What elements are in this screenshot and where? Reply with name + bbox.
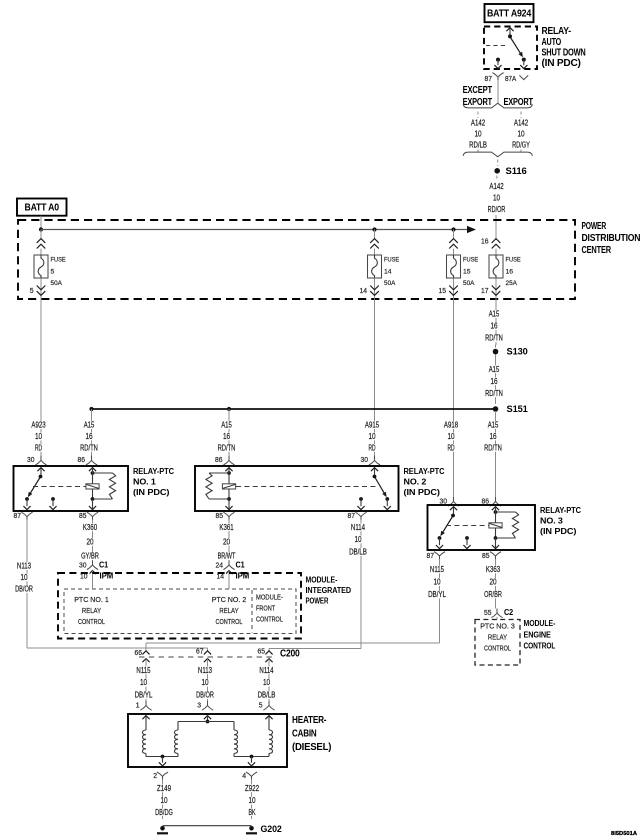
svg-text:4: 4 — [242, 771, 246, 780]
svg-text:RD: RD — [35, 442, 42, 452]
svg-text:85: 85 — [216, 511, 224, 520]
svg-text:RELAY-: RELAY- — [542, 26, 571, 37]
relay RELAY-PTC NO. 1 (IN PDC) box — [14, 466, 129, 511]
wire BATT A0 feed — [40, 216, 42, 230]
svg-text:RD/TN: RD/TN — [80, 442, 98, 452]
svg-text:FRONT: FRONT — [256, 603, 275, 612]
svg-text:30: 30 — [27, 455, 35, 464]
svg-text:87: 87 — [427, 551, 435, 560]
heater output to pin 2 — [145, 754, 147, 757]
svg-text:10: 10 — [263, 677, 270, 687]
svg-text:10: 10 — [248, 795, 255, 805]
relay 2 switch common from pin 30 — [371, 468, 378, 472]
svg-text:DISTRIBUTION: DISTRIBUTION — [582, 233, 640, 244]
svg-text:(DIESEL): (DIESEL) — [292, 742, 331, 753]
svg-text:17: 17 — [481, 286, 489, 295]
heater pin 3 feed split — [204, 716, 211, 720]
svg-text:10: 10 — [20, 572, 27, 582]
svg-text:RELAY: RELAY — [219, 606, 238, 615]
svg-text:RELAY-PTC: RELAY-PTC — [540, 505, 581, 515]
svg-text:SHUT DOWN: SHUT DOWN — [542, 47, 586, 58]
relay RELAY-PTC NO. 3 (IN PDC) box — [428, 505, 536, 550]
connector/box BATT A924 — [485, 4, 534, 22]
relay 3 contact 87 — [438, 536, 442, 540]
svg-text:RD/TN: RD/TN — [485, 333, 503, 343]
svg-text:(IN PDC): (IN PDC) — [133, 487, 170, 497]
svg-text:CONTROL: CONTROL — [216, 617, 243, 626]
wire N114 10 DB/LB (relay 2 pin 87 to C200 pin 65) — [360, 520, 362, 649]
svg-text:10: 10 — [368, 431, 375, 441]
relay 3 switch common from pin 30 — [450, 507, 457, 511]
svg-text:30: 30 — [79, 560, 87, 569]
wire A15 16 RD/TN (S151 to relay 2 pin 86) — [228, 409, 230, 456]
svg-text:BK: BK — [248, 807, 255, 817]
svg-text:2: 2 — [153, 771, 157, 780]
svg-text:ENGINE: ENGINE — [524, 629, 552, 639]
svg-text:NO. 2: NO. 2 — [404, 476, 427, 486]
svg-text:5: 5 — [30, 286, 34, 295]
heater element coil B (pin 3 left) — [174, 730, 178, 754]
svg-text:A915: A915 — [365, 420, 379, 430]
pin 14 into IPM — [225, 571, 232, 575]
svg-text:16: 16 — [490, 376, 497, 386]
wire A142 10 RD/GY (export) — [520, 112, 522, 119]
svg-text:DB/YL: DB/YL — [135, 690, 153, 700]
svg-text:EXCEPT: EXCEPT — [463, 85, 493, 96]
ASD relay pivot junction — [508, 34, 512, 38]
junction at relay 2 coil feed — [227, 407, 231, 411]
svg-text:N115: N115 — [136, 665, 150, 675]
svg-text:50A: 50A — [384, 280, 396, 287]
svg-text:RD: RD — [368, 442, 375, 452]
svg-text:66: 66 — [135, 648, 143, 657]
svg-text:G202: G202 — [261, 824, 282, 834]
svg-text:50A: 50A — [463, 280, 475, 287]
svg-text:S151: S151 — [507, 404, 528, 414]
svg-text:POWER: POWER — [306, 596, 329, 606]
wire K363 20 OR/BR (relay 3 pin 85 to C2) — [495, 559, 497, 609]
svg-text:16: 16 — [489, 431, 496, 441]
svg-text:10: 10 — [354, 534, 361, 544]
svg-text:N114: N114 — [351, 522, 365, 532]
svg-text:K363: K363 — [486, 564, 500, 574]
relay 3 coil with parallel resistor, pin 86 to 85 — [492, 507, 499, 511]
relay 1 armature arrow to 87 — [29, 478, 40, 496]
splice S130 — [493, 349, 499, 355]
wire A15 16 RD/TN (fuse 16 to S130) — [495, 299, 497, 345]
svg-text:86: 86 — [215, 455, 223, 464]
option split brace — [463, 103, 532, 108]
svg-text:NO. 1: NO. 1 — [133, 476, 156, 486]
svg-text:20: 20 — [223, 536, 230, 546]
svg-text:MODULE-: MODULE- — [256, 592, 283, 601]
svg-text:A142: A142 — [489, 181, 503, 191]
ASD relay contact 87 — [496, 58, 500, 62]
wire A915 10 RD (fuse 14 to relay 2 pin 30) — [374, 299, 376, 456]
svg-text:RELAY-PTC: RELAY-PTC — [404, 466, 445, 476]
in-line connector C200 — [139, 656, 276, 658]
svg-text:10: 10 — [517, 129, 524, 139]
svg-text:25A: 25A — [506, 280, 518, 287]
POWER DISTRIBUTION CENTER dashed box — [18, 220, 575, 299]
svg-text:NO. 3: NO. 3 — [540, 515, 563, 525]
svg-text:BATT A0: BATT A0 — [25, 203, 60, 214]
svg-text:(IN PDC): (IN PDC) — [404, 487, 441, 497]
svg-text:3: 3 — [197, 701, 201, 710]
fuse F5 5 50A — [40, 230, 42, 239]
fuse F14 14 50A — [374, 230, 376, 239]
svg-text:N114: N114 — [259, 665, 273, 675]
svg-text:PTC NO. 2: PTC NO. 2 — [212, 595, 247, 604]
junction at relay 1 coil feed — [89, 407, 93, 411]
bus wire from S151 feeding relay coils — [92, 408, 496, 410]
relay 1 coil with parallel resistor, pin 86 to 85 — [89, 468, 96, 472]
svg-text:A15: A15 — [488, 420, 499, 430]
svg-text:10: 10 — [140, 677, 147, 687]
svg-text:S116: S116 — [506, 166, 527, 176]
svg-text:DB/YL: DB/YL — [428, 589, 446, 599]
svg-text:FUSE: FUSE — [506, 257, 522, 264]
svg-text:A923: A923 — [31, 420, 45, 430]
relay 3 armature arrow to 87 — [441, 517, 452, 535]
svg-text:N113: N113 — [17, 561, 31, 571]
svg-text:8I5D501A: 8I5D501A — [611, 831, 637, 837]
module MODULE-INTEGRATED POWER dashed box — [58, 573, 301, 639]
fuse F15 15 50A — [453, 230, 455, 239]
svg-text:10: 10 — [433, 577, 440, 587]
heater output to pin 4 — [233, 754, 235, 757]
svg-text:A15: A15 — [84, 420, 95, 430]
svg-text:N113: N113 — [198, 665, 212, 675]
wire N115 10 DB/YL (C200 to heater pin 1) — [135, 666, 152, 674]
svg-text:RD: RD — [447, 442, 454, 452]
svg-text:AUTO: AUTO — [542, 37, 562, 48]
svg-text:10: 10 — [447, 431, 454, 441]
svg-text:24: 24 — [216, 560, 224, 569]
svg-text:CONTROL: CONTROL — [524, 641, 556, 651]
wire A15 16 RD/TN (S151 to relay 3 pin 86) — [495, 411, 497, 497]
svg-text:FUSE: FUSE — [51, 257, 67, 264]
svg-text:Z149: Z149 — [157, 783, 171, 793]
wire A15 16 RD/TN (S151 to relay 1 pin 86) — [91, 409, 93, 456]
svg-text:EXPORT: EXPORT — [504, 97, 534, 108]
svg-text:87: 87 — [348, 511, 356, 520]
svg-text:65: 65 — [258, 646, 266, 655]
relay 1 switch common from pin 30 — [37, 468, 44, 472]
svg-text:RELAY-PTC: RELAY-PTC — [133, 466, 174, 476]
svg-text:16: 16 — [490, 321, 497, 331]
svg-text:30: 30 — [361, 455, 369, 464]
svg-text:10: 10 — [35, 431, 42, 441]
svg-text:EXPORT: EXPORT — [463, 97, 493, 108]
svg-text:HEATER-: HEATER- — [292, 715, 326, 726]
relay 3 armature-coil dashed link — [446, 525, 489, 527]
svg-text:15: 15 — [463, 269, 471, 276]
svg-text:OR/BR: OR/BR — [484, 589, 502, 599]
svg-text:87A: 87A — [505, 74, 516, 83]
svg-text:CONTROL: CONTROL — [78, 617, 105, 626]
svg-text:A15: A15 — [489, 308, 500, 318]
wire Z149 10 DB/DG (heater pin 2 to ground) — [162, 779, 164, 815]
svg-text:C1: C1 — [236, 559, 245, 569]
svg-text:A15: A15 — [221, 420, 232, 430]
relay 3 contact 87A (unused) — [465, 536, 469, 540]
relay RELAY-PTC NO. 2 (IN PDC) box — [195, 466, 399, 511]
svg-text:55: 55 — [484, 608, 492, 617]
svg-text:BR/WT: BR/WT — [218, 551, 236, 561]
svg-text:87: 87 — [14, 511, 22, 520]
wire N113 10 DB/OR (C200 to heater pin 3) — [197, 666, 214, 674]
relay 2 armature-coil dashed link — [236, 486, 376, 488]
svg-text:A918: A918 — [444, 420, 458, 430]
svg-text:10: 10 — [201, 677, 208, 687]
pin 10 into IPM — [89, 571, 96, 575]
svg-text:DB/LB: DB/LB — [349, 546, 367, 556]
svg-text:85: 85 — [79, 511, 87, 520]
svg-text:C200: C200 — [280, 649, 300, 660]
svg-text:K361: K361 — [219, 522, 233, 532]
separator in IPM — [251, 590, 253, 633]
svg-text:5: 5 — [259, 701, 263, 710]
connector/box BATT A0 — [17, 199, 67, 216]
module PTC NO. 3 RELAY CONTROL dashed box (engine control) — [475, 620, 520, 666]
svg-text:A15: A15 — [489, 364, 500, 374]
heater element coil A (pin 1) — [142, 716, 149, 720]
svg-text:14: 14 — [384, 269, 392, 276]
svg-text:A142: A142 — [514, 117, 528, 127]
wire K361 20 BR/WT (relay 2 pin 85 to IPM) — [228, 520, 230, 561]
svg-text:RELAY: RELAY — [488, 632, 507, 641]
svg-text:A142: A142 — [471, 117, 485, 127]
svg-text:50A: 50A — [51, 280, 63, 287]
svg-text:1: 1 — [136, 701, 140, 710]
wire N114 10 DB/LB (C200 to heater pin 5) — [258, 666, 275, 674]
svg-text:PTC NO. 1: PTC NO. 1 — [74, 595, 109, 604]
svg-text:20: 20 — [86, 536, 93, 546]
svg-text:14: 14 — [360, 286, 368, 295]
wire N113 10 DB/OR (relay 1 pin 87 to C200 pin 67) — [26, 520, 28, 648]
svg-text:5: 5 — [51, 269, 55, 276]
svg-text:10: 10 — [493, 193, 500, 203]
svg-text:CABIN: CABIN — [292, 728, 317, 739]
junction node at fuse 15 — [451, 227, 455, 231]
wire N115 10 DB/YL (relay 3 pin 87 to C200 pin 66) — [439, 559, 441, 643]
svg-text:15: 15 — [439, 286, 447, 295]
svg-text:CENTER: CENTER — [582, 245, 612, 256]
option merge brace — [463, 152, 532, 157]
component HEATER-CABIN (DIESEL) box — [128, 714, 287, 767]
ASD relay armature (switch blade to 87A) — [511, 38, 522, 56]
svg-text:RD/TN: RD/TN — [484, 442, 502, 452]
svg-text:RD/TN: RD/TN — [485, 388, 503, 398]
svg-text:20: 20 — [489, 577, 496, 587]
wire Z922 10 BK (heater pin 4 to ground) — [251, 779, 253, 815]
wire from ASD pin 87 — [497, 80, 499, 103]
wire A15 16 RD/TN (S130 to S151) — [495, 355, 497, 405]
svg-text:RD/TN: RD/TN — [218, 442, 236, 452]
svg-text:MODULE-: MODULE- — [524, 618, 556, 628]
svg-text:CONTROL: CONTROL — [484, 643, 511, 652]
ASD relay common terminal arrow — [506, 28, 513, 32]
svg-text:PTC NO. 3: PTC NO. 3 — [480, 621, 515, 630]
svg-text:INTEGRATED: INTEGRATED — [306, 585, 352, 595]
wire A918 10 RD (fuse 15 to relay 3 pin 30) — [453, 299, 455, 497]
relay 1 contact 87 — [25, 497, 29, 501]
svg-text:BATT A924: BATT A924 — [487, 9, 532, 20]
relay 2 contact 87A (unused) — [385, 497, 389, 501]
junction node at fuse 14 — [372, 227, 376, 231]
svg-text:10: 10 — [474, 129, 481, 139]
fuse F16 16 25A — [495, 230, 497, 239]
svg-text:RD/OR: RD/OR — [488, 204, 506, 214]
splice S151 — [493, 406, 499, 412]
svg-text:C1: C1 — [99, 559, 108, 569]
svg-text:DB/LB: DB/LB — [258, 690, 276, 700]
wire A142 10 RD/LB (except export) — [477, 112, 479, 119]
svg-text:16: 16 — [85, 431, 92, 441]
svg-text:86: 86 — [482, 496, 490, 505]
svg-text:RD/GY: RD/GY — [512, 140, 530, 150]
junction node at fuse 5 — [39, 227, 43, 231]
IPM front control inner dashed box — [64, 589, 296, 634]
svg-text:FUSE: FUSE — [384, 257, 400, 264]
svg-text:(IN PDC): (IN PDC) — [542, 58, 581, 69]
ASD relay armature-coil dashed link — [486, 45, 506, 47]
svg-text:GY/BR: GY/BR — [81, 551, 99, 561]
svg-text:10: 10 — [160, 795, 167, 805]
svg-text:30: 30 — [440, 496, 448, 505]
heater element coil C (pin 3 right) — [234, 730, 238, 754]
relay-auto-shut-down dashed box (IN PDC) — [484, 27, 537, 70]
svg-text:FUSE: FUSE — [463, 257, 479, 264]
svg-text:S130: S130 — [507, 347, 528, 357]
svg-text:RD/LB: RD/LB — [469, 140, 487, 150]
ASD relay contact 87A — [522, 58, 526, 62]
svg-text:MODULE-: MODULE- — [306, 574, 338, 584]
splice S116 — [494, 168, 500, 174]
heater element coil D (pin 5) — [265, 716, 272, 720]
relay 2 contact 87 — [359, 497, 363, 501]
svg-text:RELAY: RELAY — [82, 606, 101, 615]
wire K360 20 GY/BR (relay 1 pin 85 to IPM) — [92, 520, 94, 561]
relay 2 coil with parallel resistor, pin 86 to 85 — [225, 468, 232, 472]
wire A142 10 RD/OR — [496, 176, 498, 182]
relay 2 armature arrow to 87A — [375, 478, 386, 496]
svg-text:C2: C2 — [504, 607, 513, 617]
svg-text:POWER: POWER — [582, 221, 607, 232]
svg-text:87: 87 — [485, 74, 493, 83]
svg-text:16: 16 — [506, 269, 514, 276]
ground G202 — [162, 816, 164, 820]
svg-text:DB/OR: DB/OR — [196, 690, 214, 700]
svg-text:CONTROL: CONTROL — [256, 614, 283, 623]
wire to splice S116 — [497, 160, 499, 167]
svg-text:(IN PDC): (IN PDC) — [540, 526, 577, 536]
svg-text:16: 16 — [481, 237, 489, 246]
wire A923 10 RD (fuse 5 to relay 1 pin 30) — [40, 299, 42, 456]
svg-text:K360: K360 — [83, 522, 97, 532]
PDC internal bus wire — [41, 229, 468, 231]
svg-text:DB/DG: DB/DG — [155, 807, 173, 817]
relay 1 contact 87A (unused) — [51, 497, 55, 501]
svg-text:85: 85 — [482, 551, 490, 560]
svg-text:DB/OR: DB/OR — [15, 584, 33, 594]
svg-text:N115: N115 — [430, 564, 444, 574]
svg-text:16: 16 — [223, 431, 230, 441]
svg-text:Z922: Z922 — [245, 783, 259, 793]
svg-text:67: 67 — [196, 646, 204, 655]
svg-text:86: 86 — [78, 455, 86, 464]
relay 1 armature-coil dashed link — [33, 486, 86, 488]
